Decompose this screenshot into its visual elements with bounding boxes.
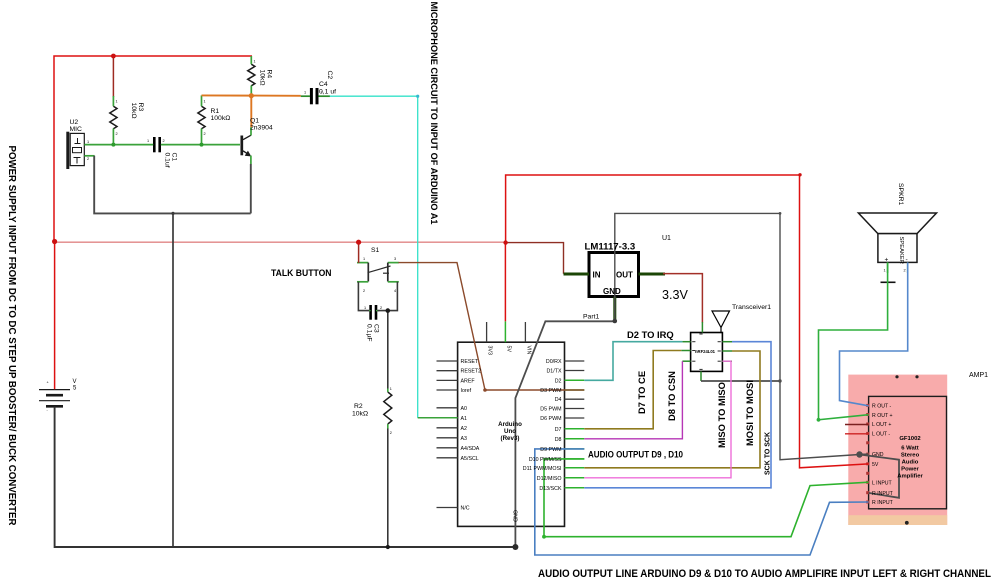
svg-text:S1: S1 [371, 247, 380, 254]
wire: speaker plus green to amp R OUT+ [819, 262, 888, 419]
svg-text:0,1 uf: 0,1 uf [319, 89, 336, 96]
wire: R2 bottom wire to ground rail [387, 428, 389, 547]
svg-text:L INPUT: L INPUT [872, 481, 893, 487]
wire: mic ground down and across [94, 156, 251, 214]
svg-text:POWER SUPPLY INPUT FROM DC TO: POWER SUPPLY INPUT FROM DC TO DC STEP UP… [6, 146, 17, 526]
wire: thick green LM GND down [613, 297, 616, 322]
svg-text:Power: Power [901, 467, 919, 473]
wire: green R1 bottom stub [201, 129, 203, 145]
svg-text:SPKR1: SPKR1 [897, 183, 904, 206]
svg-text:D1/TX: D1/TX [546, 369, 561, 375]
node: mic ground junction [171, 212, 174, 215]
svg-text:D10 PWM/SS: D10 PWM/SS [529, 457, 562, 463]
wire: gray Part1 LM GND to arduino GND [515, 321, 614, 547]
arduino left pin stubs [437, 361, 458, 508]
svg-text:MISO TO MISO: MISO TO MISO [716, 382, 727, 448]
amp bottom dot [905, 521, 909, 525]
wire: green R2 stubs [387, 389, 389, 393]
svg-text:Stereo: Stereo [901, 453, 920, 459]
microphone U2 symbol [68, 132, 84, 169]
amp description text [897, 436, 923, 480]
wire: green mic output net [84, 144, 153, 146]
svg-text:2: 2 [363, 289, 365, 293]
label C1 rotated [164, 153, 178, 168]
svg-text:C1: C1 [171, 153, 178, 162]
wire: dark red S1 drop [358, 242, 360, 263]
node: nRF ground junction [778, 379, 781, 382]
svg-text:10kΩ: 10kΩ [259, 70, 266, 86]
arduino right pin stubs [565, 361, 585, 418]
speaker SPKR1 horn [858, 213, 936, 234]
svg-text:Q1: Q1 [250, 118, 259, 125]
svg-text:(Rev3): (Rev3) [501, 435, 520, 442]
amp pin labels [872, 403, 894, 506]
svg-text:5V: 5V [505, 346, 511, 353]
svg-text:4: 4 [394, 289, 396, 293]
wire: battery positive drop [54, 242, 56, 390]
speaker pin stubs [887, 262, 889, 273]
svg-text:1: 1 [254, 60, 256, 64]
svg-text:1: 1 [116, 100, 118, 104]
arduino U-board box [458, 342, 565, 526]
svg-text:RESET2: RESET2 [461, 369, 482, 375]
label C3 0.1uF rotated [366, 324, 380, 342]
svg-text:AUDIO OUTPUT LINE ARDUINO D9 &: AUDIO OUTPUT LINE ARDUINO D9 & D10 TO AU… [538, 568, 991, 580]
node: LM1117 GND junction [613, 319, 618, 324]
svg-text:RESET: RESET [461, 359, 479, 365]
wire: green R3 bottom stub [112, 129, 114, 145]
wire: green R1 top stub [201, 95, 203, 106]
wire: salmon mid rail battery to 5V junction [55, 241, 506, 243]
node: R2 to ground rail junction [386, 545, 390, 549]
svg-text:D5 PWM: D5 PWM [540, 407, 561, 413]
svg-text:AUDIO OUTPUT D9 , D10: AUDIO OUTPUT D9 , D10 [588, 449, 683, 460]
node: ground bus corner [779, 212, 782, 215]
wire: green R4 top stub [250, 56, 252, 64]
wire: speaker minus blue to amp R OUT- [840, 262, 908, 405]
C3 side wires [369, 310, 371, 312]
battery V5 [39, 390, 70, 407]
svg-text:10kΩ: 10kΩ [130, 103, 137, 119]
wire: cornflower D13 SCK [584, 342, 771, 488]
resistor R2 [384, 392, 392, 424]
label R4 10k rotated [259, 70, 273, 86]
svg-text:D3 PWM: D3 PWM [540, 388, 561, 394]
svg-text:L OUT -: L OUT - [872, 432, 890, 438]
label SPEAKER rotated + terminals [898, 237, 904, 264]
capacitor C3 [369, 305, 372, 320]
wire: green collector stub [250, 127, 252, 135]
svg-text:R2: R2 [354, 403, 363, 410]
wire: dark red rail to LM1117 IN [506, 243, 564, 274]
svg-text:R3: R3 [137, 103, 144, 112]
svg-text:OUT: OUT [616, 271, 633, 280]
svg-text:R4: R4 [266, 70, 273, 79]
svg-text:D2 TO IRQ: D2 TO IRQ [627, 329, 674, 340]
resistor R3 [110, 106, 117, 129]
wire: pink D12 MISO [584, 361, 731, 478]
svg-text:-: - [906, 257, 908, 264]
wire: S1 right leg to C3 junction [378, 282, 398, 311]
wire: gray GND diagonal to R-INPUT-mid pin [860, 455, 900, 498]
svg-text:3: 3 [394, 257, 396, 261]
arduino connected right pin green stubs [565, 380, 585, 488]
wire: green transceiver VCC stub [701, 322, 703, 333]
wire: battery negative to bottom ground rail [55, 407, 516, 547]
amp AMP1 pink module [848, 375, 947, 525]
node: S1 wire bend at D3 row [483, 388, 487, 392]
speaker body [878, 234, 917, 263]
svg-text:C3: C3 [373, 324, 380, 333]
svg-text:VIN: VIN [525, 346, 531, 355]
LM1117-3.3 regulator U1 box [589, 253, 639, 297]
svg-text:C4: C4 [319, 81, 328, 88]
svg-text:100kΩ: 100kΩ [211, 115, 231, 122]
wire: green C1 to base net [161, 144, 240, 146]
svg-text:D0/RX: D0/RX [546, 359, 562, 365]
label R3 10k rotated [130, 103, 144, 119]
svg-text:0.1uf: 0.1uf [164, 153, 171, 168]
svg-text:D4: D4 [555, 397, 562, 403]
svg-text:D6 PWM: D6 PWM [540, 416, 561, 422]
wire: green R3 top stub [112, 96, 114, 106]
wire: gray amp GND into pin [860, 453, 869, 455]
svg-text:2: 2 [904, 269, 906, 273]
svg-text:A3: A3 [461, 436, 468, 442]
wire: brown S1 to arduino D3 [398, 263, 584, 390]
wire: red stub amp L OUT- [845, 433, 869, 435]
svg-text:N/C: N/C [461, 506, 470, 512]
svg-text:Uno: Uno [504, 428, 516, 435]
svg-text:IN: IN [593, 271, 601, 280]
svg-text:6 Watt: 6 Watt [901, 446, 918, 452]
svg-text:D8: D8 [555, 437, 562, 443]
node: mic line corner to A1 [416, 95, 419, 98]
node: battery positive / mid rail junction [52, 239, 57, 244]
svg-text:SCK TO SCK: SCK TO SCK [765, 432, 772, 475]
transistor Q1 2n3904 [242, 135, 251, 155]
svg-text:SPEAKER: SPEAKER [898, 237, 904, 264]
node: arduino GND / ground rail junction [512, 544, 518, 550]
svg-text:2: 2 [390, 431, 392, 435]
svg-text:2: 2 [204, 132, 206, 136]
svg-text:C2: C2 [326, 71, 333, 80]
svg-text:D9 PWM: D9 PWM [540, 447, 561, 453]
node: +V rail to R3 junction [111, 54, 116, 59]
svg-text:2: 2 [380, 306, 382, 310]
amp top mounting dots [895, 375, 898, 378]
svg-text:Transceiver1: Transceiver1 [732, 304, 771, 311]
svg-text:A4/SDA: A4/SDA [461, 446, 480, 452]
svg-text:R OUT +: R OUT + [872, 413, 893, 419]
amp pin squares [866, 404, 869, 504]
svg-text:1: 1 [884, 269, 886, 273]
svg-text:+: + [885, 257, 889, 264]
wire: emitter down to ground rail [250, 164, 252, 213]
svg-text:2n3904: 2n3904 [250, 125, 273, 132]
svg-text:GND: GND [512, 510, 518, 522]
svg-text:LM1117-3.3: LM1117-3.3 [585, 242, 636, 253]
svg-text:AMP1: AMP1 [969, 372, 988, 379]
svg-text:Part1: Part1 [583, 314, 599, 321]
svg-text:Ioref: Ioref [461, 388, 472, 394]
svg-text:R INPUT: R INPUT [872, 491, 894, 497]
arduino left pin labels [461, 359, 482, 512]
svg-text:R INPUT: R INPUT [872, 500, 894, 506]
wire: red power down right side to amp 5V [800, 175, 869, 468]
svg-text:D7 TO CE: D7 TO CE [636, 371, 647, 414]
svg-text:A0: A0 [461, 406, 468, 412]
svg-text:A1: A1 [461, 416, 468, 422]
wire: olive D7 to CE [584, 351, 681, 429]
svg-text:MOSI TO MOSI: MOSI TO MOSI [744, 380, 755, 446]
node: mic output / R3 junction [111, 143, 115, 147]
wire: orange collector net R1 to C4 [202, 94, 301, 96]
svg-text:1: 1 [204, 100, 206, 104]
capacitor C1 [153, 137, 156, 152]
svg-text:D2: D2 [555, 378, 562, 384]
wire: maroon stub amp L OUT+ [845, 424, 869, 426]
wire: thick green out of LM OUT [639, 273, 666, 276]
wire: teal D2 to IRQ [584, 342, 682, 381]
svg-text:D13/SCK: D13/SCK [539, 486, 562, 492]
mic pin stubs [84, 155, 94, 157]
node: C1 / R1 / Q1 base junction [200, 143, 204, 147]
node: S1 / C3 / R2 junction [386, 308, 391, 313]
svg-text:R OUT -: R OUT - [872, 403, 891, 409]
label C2 rotated + C4 value [326, 71, 333, 80]
wire: olive D11 MOSI [584, 351, 760, 468]
svg-text:3V3: 3V3 [487, 346, 493, 355]
switch S1 [357, 263, 399, 282]
node: 5V rail corner to amp [798, 173, 801, 176]
resistor R4 [248, 64, 255, 86]
wire: S1 left leg to C3 [358, 282, 369, 311]
wire: green stub into A1 pin [418, 417, 458, 419]
svg-text:GND: GND [603, 287, 621, 296]
svg-text:0.1µF: 0.1µF [366, 324, 373, 342]
svg-text:AREF: AREF [461, 378, 476, 384]
node: mid rail to S1 junction [356, 240, 361, 245]
svg-text:L OUT +: L OUT + [872, 422, 891, 428]
svg-text:D8 TO CSN: D8 TO CSN [666, 371, 677, 421]
wire: green D10 to amp L INPUT [544, 459, 869, 537]
wire: gray LM GND up over and down to nRF/amp ground [615, 213, 860, 459]
svg-text:V: V [73, 379, 77, 385]
svg-text:1: 1 [147, 139, 149, 143]
wire: green R4 bottom stub [250, 86, 252, 96]
wire: dark red R3 top segment [112, 56, 114, 97]
node: mid rail / arduino 5V junction [503, 240, 507, 244]
wire: bright red 5V riser to top rail [506, 175, 800, 243]
nRF pin stubs [681, 342, 732, 381]
svg-text:A5/SCL: A5/SCL [461, 456, 479, 462]
svg-text:1: 1 [363, 257, 365, 261]
node: amp GND junction [856, 451, 862, 457]
wire: green C4 right stub [318, 95, 330, 97]
nRF inner pin marks [692, 334, 721, 369]
svg-text:2: 2 [116, 132, 118, 136]
svg-text:A2: A2 [461, 426, 468, 432]
amp inner box [869, 396, 947, 508]
svg-text:Amplifier: Amplifier [897, 474, 923, 480]
svg-text:GND: GND [872, 452, 884, 458]
arduino top pin stubs 3V3 5V VIN [486, 322, 488, 342]
svg-text:10kΩ: 10kΩ [352, 411, 368, 418]
label SPKR1 rotated [897, 183, 904, 206]
arduino top pin labels rotated [487, 346, 532, 522]
amp peach bottom strip [848, 515, 947, 525]
black tick on speaker+ wire [881, 281, 896, 283]
svg-text:U2: U2 [70, 119, 79, 126]
wire: magenta D8 to CSN [584, 361, 682, 439]
svg-text:TALK BUTTON: TALK BUTTON [271, 268, 332, 279]
wire: cyan C4 to arduino A1 [330, 96, 418, 418]
svg-text:D11 PWM/MOSI: D11 PWM/MOSI [523, 466, 562, 472]
arduino right pin labels [523, 359, 562, 492]
resistor R1 [198, 106, 205, 129]
antenna [712, 311, 730, 328]
svg-text:2: 2 [87, 157, 89, 161]
node: D10 wire corner [542, 535, 546, 539]
svg-text:1: 1 [364, 306, 366, 310]
svg-text:1: 1 [304, 91, 306, 95]
nRF24L01 transceiver box [691, 333, 723, 372]
svg-text:U1: U1 [662, 235, 671, 242]
wire: red 3.3V feed to transceiver VCC [663, 274, 702, 323]
svg-text:MICROPHONE CIRCUIT TO INPUT OF: MICROPHONE CIRCUIT TO INPUT OF ARDUINO A… [429, 2, 439, 225]
svg-text:Audio: Audio [902, 460, 919, 466]
svg-text:D7: D7 [555, 427, 562, 433]
wire: green C4 left stub [301, 95, 310, 97]
tiny pin number marks [47, 60, 906, 436]
wire: bright red down to arduino 5V pin [504, 243, 506, 322]
node: speaker+ wire corner [817, 418, 821, 422]
svg-text:3.3V: 3.3V [662, 288, 689, 302]
wire: ground drop from mic rail to bottom rail [172, 213, 174, 547]
capacitor C4 [310, 88, 313, 104]
svg-text:Arduino: Arduino [498, 421, 522, 428]
svg-text:GF1002: GF1002 [899, 436, 921, 442]
svg-text:nRF24L01: nRF24L01 [695, 349, 716, 354]
wire: R2 top wire from junction [387, 311, 389, 389]
wire: thick green into LM IN [564, 273, 590, 276]
wire: steel blue D9 to amp R INPUT [535, 449, 869, 555]
svg-text:5V: 5V [872, 462, 879, 468]
wire: orange collector vertical [250, 95, 252, 127]
svg-text:2: 2 [163, 139, 165, 143]
svg-text:MIC: MIC [70, 126, 83, 133]
svg-text:1: 1 [390, 387, 392, 391]
svg-text:1: 1 [87, 140, 89, 144]
wire: gray nRF GND horizontal [701, 380, 780, 382]
svg-text:R1: R1 [211, 108, 220, 115]
node: Q1 collector / R4 / C4 junction [249, 93, 254, 98]
svg-text:D12/MISO: D12/MISO [537, 476, 562, 482]
wire: +V top rail from battery line to R4 top [54, 56, 252, 242]
